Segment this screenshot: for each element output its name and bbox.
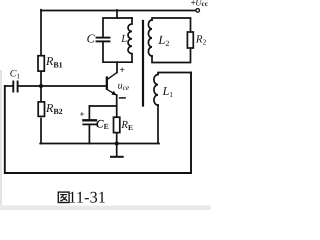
- svg-text:+: +: [119, 65, 125, 76]
- svg-text:C1: C1: [10, 69, 21, 81]
- svg-text:+: +: [79, 109, 84, 119]
- svg-text:R2: R2: [195, 33, 207, 46]
- svg-text:C: C: [87, 32, 96, 46]
- svg-text:CE: CE: [96, 118, 109, 131]
- svg-text:RB2: RB2: [45, 101, 63, 116]
- svg-text:L1: L1: [162, 84, 174, 99]
- svg-text:L: L: [120, 33, 127, 45]
- svg-text:RE: RE: [120, 119, 133, 132]
- svg-text:uce: uce: [118, 81, 130, 92]
- svg-text:cc: cc: [202, 0, 209, 8]
- svg-text:11-31: 11-31: [68, 188, 106, 206]
- svg-text:L2: L2: [157, 33, 169, 48]
- svg-text:RB1: RB1: [45, 54, 63, 69]
